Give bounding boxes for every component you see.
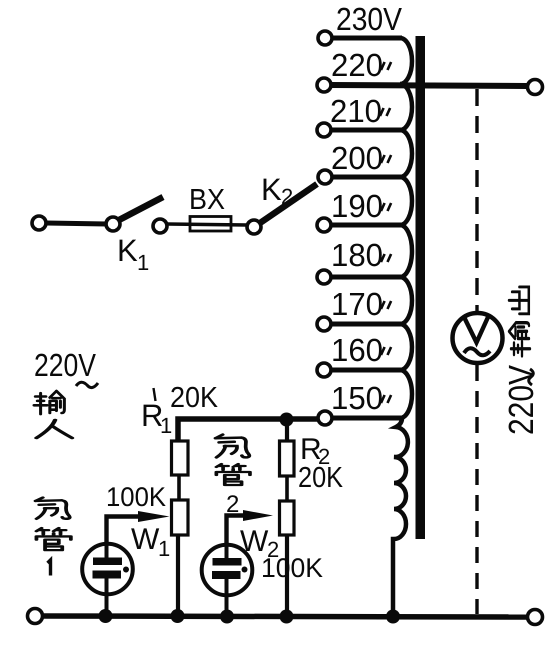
label 210" xyxy=(330,93,390,129)
svg-text:150: 150 xyxy=(331,380,383,416)
svg-text:20K: 20K xyxy=(298,462,344,494)
wire R1 top to 150V tap xyxy=(178,419,318,441)
W1 wiper arrowhead xyxy=(138,511,170,522)
stray prime mark above R1 xyxy=(154,388,156,401)
tap wire 200V xyxy=(330,175,402,180)
label ru (input) xyxy=(36,420,72,438)
tap wire 210V xyxy=(330,128,402,133)
junction node neon1 xyxy=(99,609,113,623)
junction node R2 top xyxy=(280,413,294,427)
label R2 xyxy=(300,433,330,469)
tap wire 220V output xyxy=(330,85,527,86)
label nai (neon 1) xyxy=(36,498,70,519)
switch K2 blade xyxy=(260,184,317,223)
dashed voltmeter wire lower xyxy=(475,365,478,614)
label shu (input) xyxy=(34,391,64,414)
transformer winding xyxy=(400,38,412,418)
svg-text:W: W xyxy=(131,523,160,556)
potentiometer W1 body xyxy=(172,500,189,535)
label 190" xyxy=(331,188,391,224)
potentiometer W2 wiper wire xyxy=(227,516,253,544)
svg-text:230V: 230V xyxy=(336,1,403,37)
fuse BX right terminal / K2 pivot xyxy=(247,220,261,234)
dashed voltmeter wire upper xyxy=(475,89,478,311)
potentiometer W2 body xyxy=(280,501,295,535)
label K1 xyxy=(117,233,149,275)
tap terminal 190V xyxy=(317,218,331,232)
switch K1 pivot xyxy=(106,217,120,231)
W2 wiper arrowhead xyxy=(243,510,273,521)
tap terminal 180V xyxy=(317,270,331,284)
label guan (neon 1) xyxy=(36,528,70,550)
tap terminal 160V xyxy=(317,363,331,377)
label ~ input xyxy=(76,382,98,387)
label 150" xyxy=(331,380,391,416)
label 180" xyxy=(331,237,391,273)
svg-text:100K: 100K xyxy=(261,553,323,583)
label K2 xyxy=(261,172,293,209)
svg-text:170: 170 xyxy=(331,286,383,322)
potentiometer W1 wiper wire xyxy=(107,517,149,544)
fuse BX left terminal xyxy=(153,219,167,233)
label 170" xyxy=(331,286,391,322)
input terminal left (K1) xyxy=(32,216,46,230)
output terminal right (rail) xyxy=(528,610,543,625)
transformer core xyxy=(416,36,426,539)
junction node R2 xyxy=(280,610,294,624)
tap terminal 150V xyxy=(318,411,332,425)
wire xyxy=(167,224,247,225)
tap terminal 170V xyxy=(317,317,331,331)
junction node winding bottom xyxy=(386,610,400,624)
resistor R1 body xyxy=(172,441,189,475)
label 220" xyxy=(331,47,391,83)
label 160" xyxy=(331,332,391,368)
tap terminal 210V xyxy=(317,123,331,137)
wire R2 chain xyxy=(285,419,289,441)
label W2 xyxy=(240,525,279,562)
voltmeter V xyxy=(453,313,503,363)
wire xyxy=(285,476,289,501)
neon tube 1 xyxy=(82,543,133,614)
label nai (neon 2) xyxy=(216,435,250,458)
label W1 xyxy=(131,523,170,561)
svg-text:210: 210 xyxy=(330,93,382,129)
output terminal right xyxy=(528,80,543,95)
svg-text:100K: 100K xyxy=(106,482,166,512)
svg-text:BX: BX xyxy=(189,184,225,216)
junction node neon2 xyxy=(220,610,234,624)
svg-text:1: 1 xyxy=(160,413,172,438)
tap wire 230V xyxy=(330,36,402,41)
svg-text:K: K xyxy=(117,233,138,268)
tap terminal 200V xyxy=(318,170,332,184)
svg-text:220V: 220V xyxy=(502,364,541,435)
input terminal left (rail) xyxy=(28,609,43,624)
tap wire 160V xyxy=(330,368,402,373)
svg-text:180: 180 xyxy=(331,237,383,273)
label 220V~ output (rotated) xyxy=(502,287,541,435)
label R1 xyxy=(141,398,172,438)
resistor R2 body xyxy=(280,441,295,476)
tap terminal 230V xyxy=(318,31,332,45)
winding lower section xyxy=(393,418,408,614)
wire R1 chain to rail xyxy=(176,535,180,614)
tap wire 170V xyxy=(330,322,402,327)
svg-text:2: 2 xyxy=(281,184,293,209)
junction node R1 xyxy=(171,609,185,623)
tap wire 180V xyxy=(330,275,402,280)
svg-text:1: 1 xyxy=(158,536,170,561)
wire xyxy=(177,475,181,500)
svg-text:190: 190 xyxy=(331,188,383,224)
svg-text:20K: 20K xyxy=(170,382,219,414)
tap wire 150V xyxy=(330,416,402,421)
svg-text:K: K xyxy=(261,172,282,207)
wire R2 chain to rail xyxy=(285,535,289,614)
tap wire 190V xyxy=(330,223,402,228)
switch K1 blade xyxy=(119,197,163,220)
bottom rail xyxy=(42,616,528,617)
fuse BX body xyxy=(190,217,231,232)
label guan (neon 2) xyxy=(216,464,250,485)
label 1 (neon 1) xyxy=(48,560,51,576)
svg-text:220V: 220V xyxy=(34,347,97,383)
label 200" xyxy=(331,140,391,176)
svg-text:220: 220 xyxy=(331,47,383,83)
svg-text:1: 1 xyxy=(137,250,149,275)
svg-text:200: 200 xyxy=(331,140,383,176)
tap terminal 220V xyxy=(317,78,331,92)
svg-text:160: 160 xyxy=(331,332,383,368)
neon tube 2 xyxy=(202,544,253,614)
wire xyxy=(46,223,107,224)
